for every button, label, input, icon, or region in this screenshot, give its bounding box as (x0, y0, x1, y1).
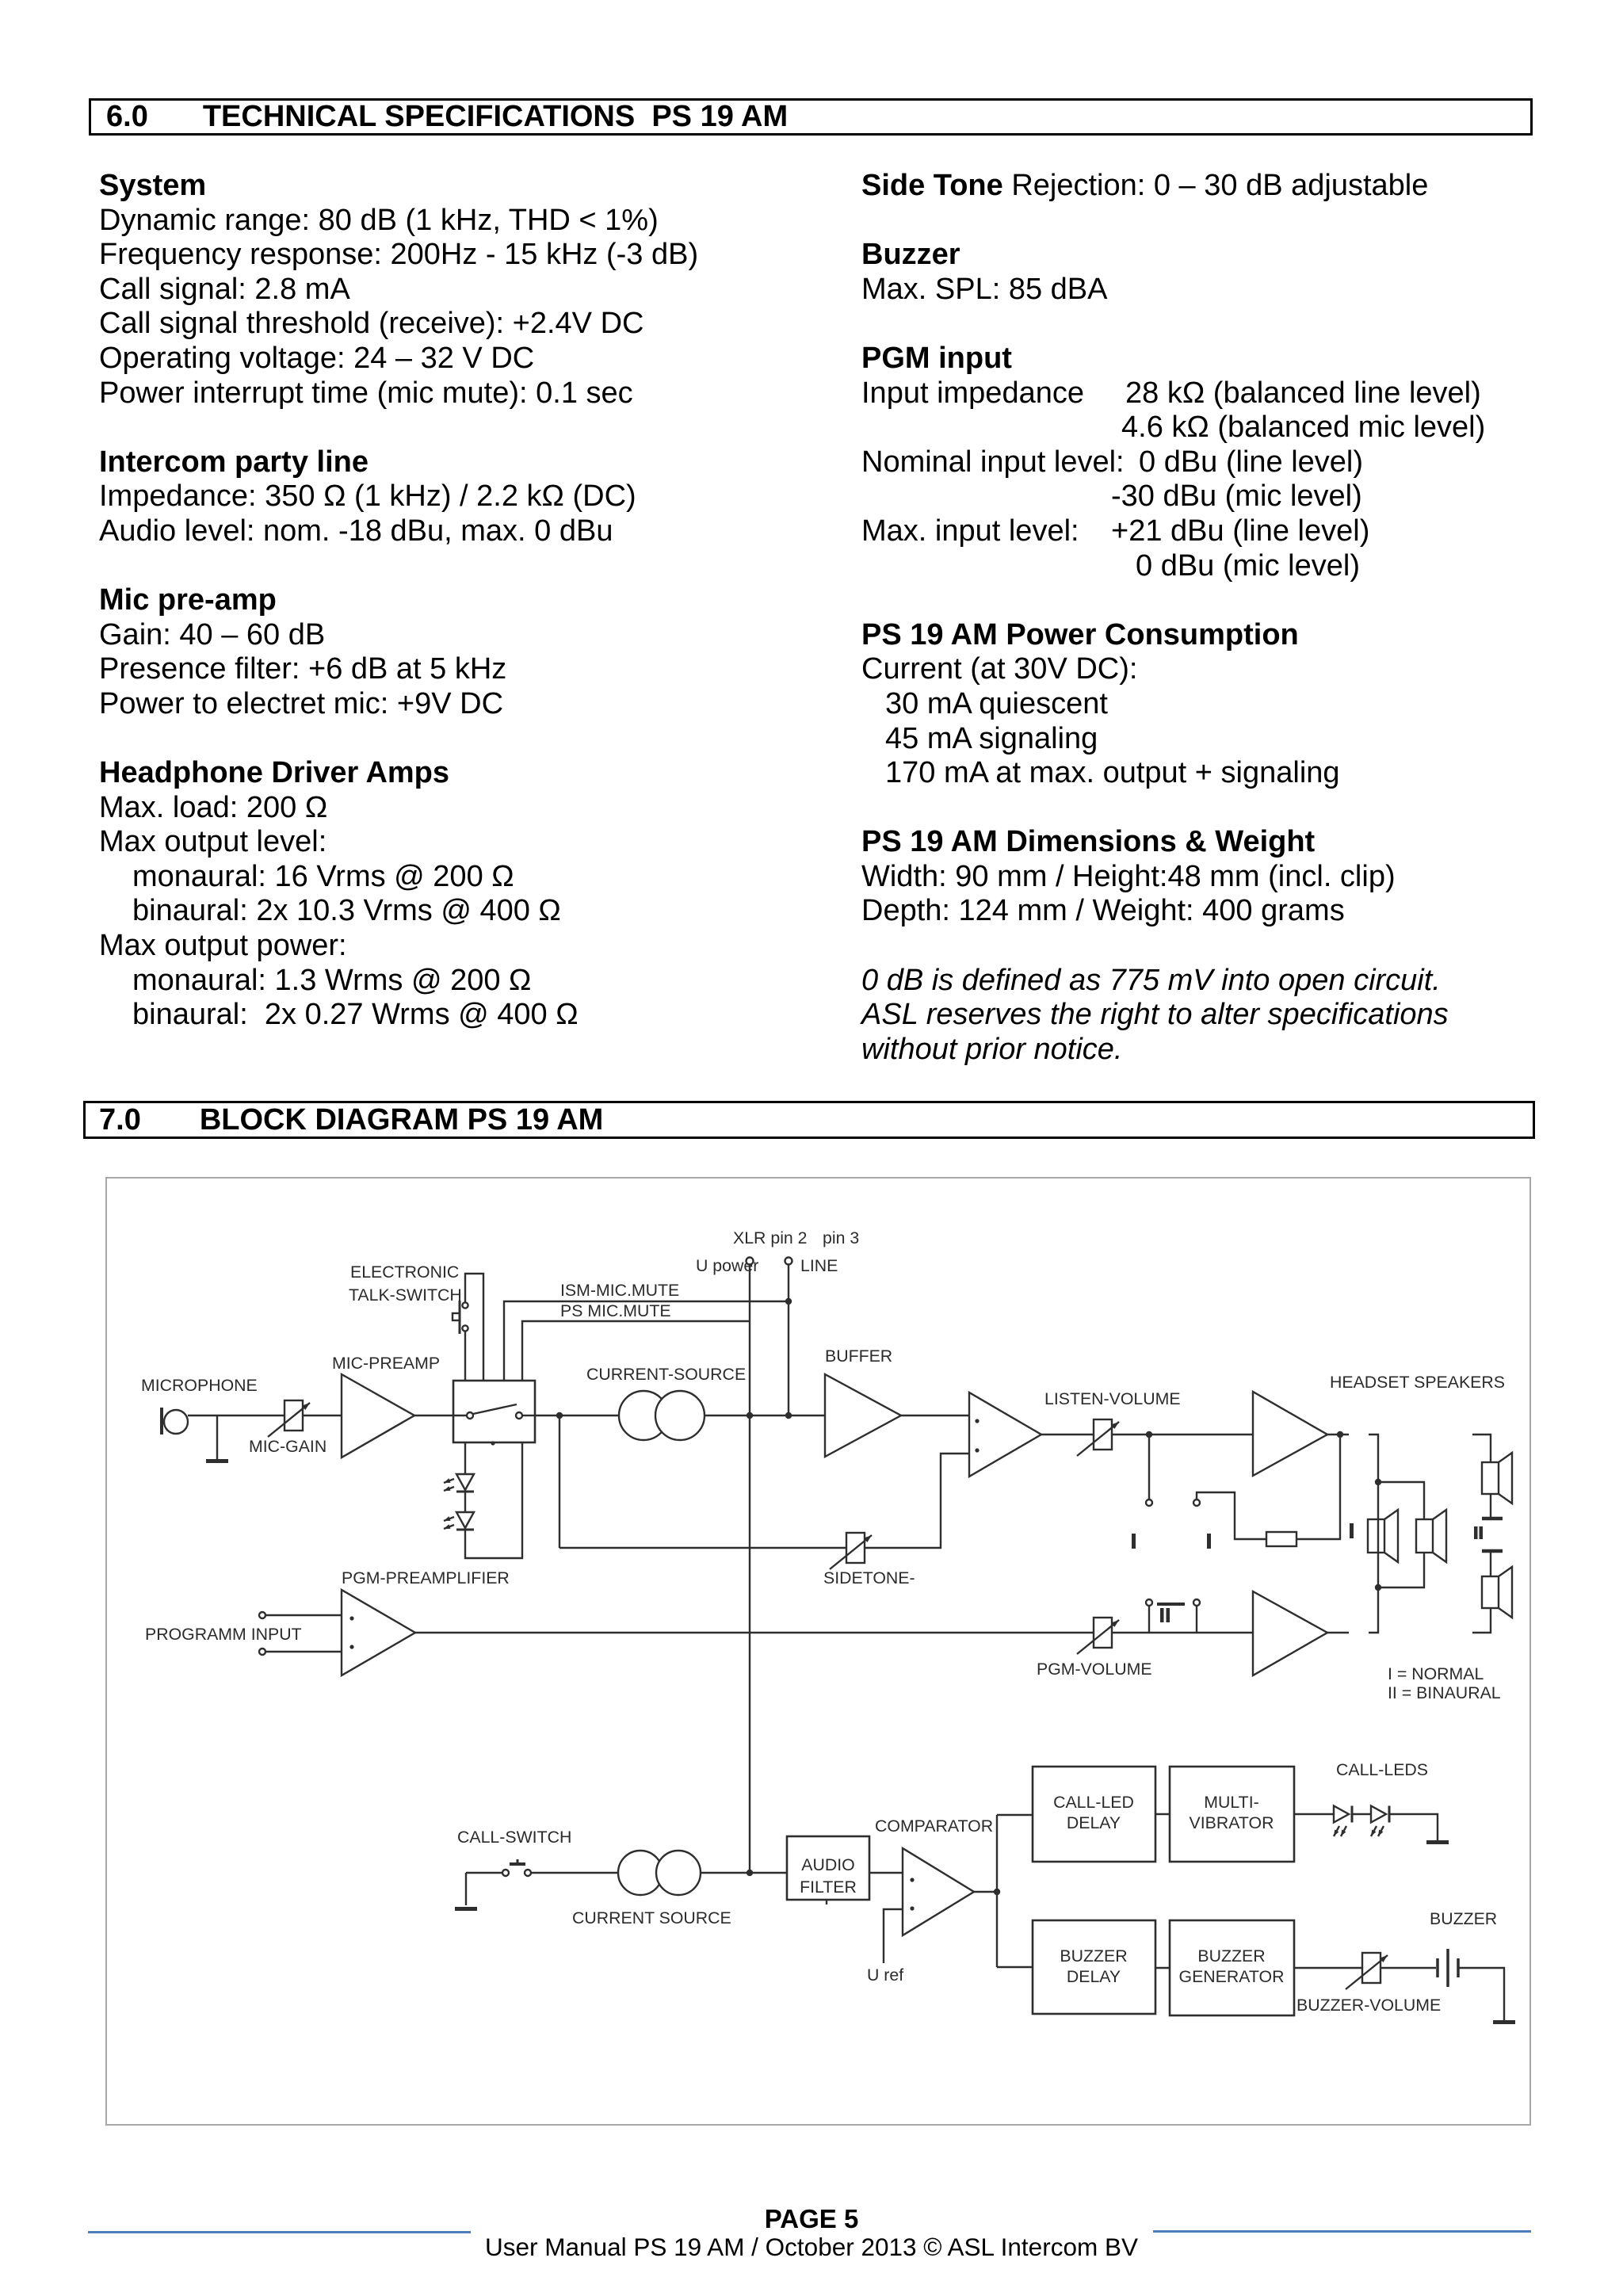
svg-text:VIBRATOR: VIBRATOR (1190, 1813, 1274, 1832)
wire talk box to LED chain (464, 1442, 466, 1474)
svg-text:HEADSET SPEAKERS: HEADSET SPEAKERS (1330, 1373, 1505, 1392)
wire sidetone to summing amp (865, 1454, 969, 1548)
amplifier MIC-PREAMP (342, 1374, 414, 1457)
label I right switch (1207, 1534, 1211, 1549)
wire top amp output (1327, 1434, 1349, 1435)
resistor R1 (1266, 1532, 1296, 1546)
junction comparator output (994, 1889, 1000, 1895)
wire resistor to switch (1197, 1492, 1266, 1539)
mute LED D1 (456, 1474, 474, 1490)
ground buzzer (1493, 2020, 1515, 2024)
talk-switch contacts (453, 1415, 467, 1416)
connector hook top right (1472, 1435, 1491, 1462)
wire LED chain (464, 1492, 466, 1512)
junction speaker node A (1375, 1479, 1381, 1485)
wire U power vertical (749, 1265, 750, 1873)
wire SP4 to hook bottom (1472, 1608, 1491, 1633)
pin PGM input + (259, 1612, 265, 1618)
svg-text:LISTEN-VOLUME: LISTEN-VOLUME (1044, 1389, 1181, 1408)
mute LED D2 (456, 1512, 474, 1528)
pin XLR pin 2 U power (747, 1258, 754, 1265)
contact plate bottom (1482, 1549, 1503, 1553)
call LED D4 (1371, 1806, 1386, 1823)
wire PS MIC.MUTE net (522, 1321, 750, 1381)
wire call switch to current source (531, 1872, 618, 1874)
wire node A to speaker SP2 top (1378, 1482, 1424, 1519)
svg-text:CURRENT-SOURCE: CURRENT-SOURCE (586, 1365, 746, 1384)
wire current-source to buffer (705, 1415, 825, 1416)
section 7.0 title bar (83, 1101, 1535, 1139)
svg-text:I = NORMAL: I = NORMAL (1388, 1664, 1484, 1683)
junction U power call line (747, 1870, 753, 1876)
contact plate top (1482, 1517, 1503, 1521)
wire generator to buzzer volume (1294, 1967, 1362, 1969)
svg-text:MULTI-: MULTI- (1204, 1793, 1258, 1812)
wire LED chain return (465, 1442, 522, 1558)
wire delay to multivibrator (1155, 1813, 1170, 1815)
svg-text:SIDETONE-: SIDETONE- (823, 1568, 915, 1587)
svg-text:MIC-PREAMP: MIC-PREAMP (332, 1354, 440, 1373)
ground mic (216, 1415, 218, 1459)
svg-text:GENERATOR: GENERATOR (1179, 1967, 1285, 1986)
summing amplifier U2 (969, 1392, 1041, 1477)
potentiometer MIC-GAIN (285, 1400, 303, 1431)
wire bottom amp output (1327, 1632, 1349, 1633)
wire pushbutton loop (465, 1274, 483, 1381)
junction speaker node B (1375, 1584, 1381, 1591)
speaker SP4 (1482, 1576, 1499, 1608)
wire PGM preamp to PGM volume (415, 1632, 1094, 1633)
junction top amp output (1337, 1431, 1343, 1438)
switch S1 mode (1148, 1435, 1150, 1499)
junction listen line switch tap (1146, 1431, 1152, 1438)
wire sidetone feed (559, 1415, 560, 1548)
svg-text:FILTER: FILTER (800, 1878, 857, 1897)
comparator U3 (903, 1848, 974, 1935)
label I speakers (1350, 1523, 1354, 1538)
wire multivibrator to LEDs (1294, 1813, 1334, 1815)
current source CS1 (619, 1391, 668, 1440)
amplifier headphone top (1253, 1392, 1327, 1476)
multivibrator box (1170, 1767, 1294, 1862)
wire between call LEDs (1352, 1813, 1371, 1815)
buzzer delay box (1033, 1920, 1155, 2014)
wire PGM volume to lower amp (1112, 1632, 1253, 1633)
ground call LEDs (1426, 1840, 1449, 1844)
svg-text:BUZZER: BUZZER (1060, 1946, 1127, 1966)
buzzer generator box (1170, 1920, 1294, 2015)
junction LINE main line (785, 1412, 792, 1419)
label II gang (1160, 1608, 1164, 1622)
svg-text:XLR pin 2: XLR pin 2 (733, 1228, 808, 1247)
pin PGM input - (259, 1648, 265, 1655)
wire audio filter to comparator (869, 1872, 903, 1874)
potentiometer LISTEN-VOLUME (1094, 1419, 1112, 1450)
wire talk-switch to current-source (535, 1415, 619, 1416)
wire buzzer delay to generator (1155, 1967, 1170, 1969)
svg-text:BUZZER-VOLUME: BUZZER-VOLUME (1296, 1996, 1441, 2015)
wire node B to speaker SP2 bottom (1378, 1553, 1424, 1587)
right spec column (861, 169, 1449, 1067)
svg-text:MICROPHONE: MICROPHONE (141, 1376, 258, 1395)
wire buzzer to ground (1458, 1968, 1504, 2020)
wire PGM inputs (265, 1614, 342, 1616)
ground call switch (455, 1907, 477, 1911)
label I left switch (1132, 1534, 1136, 1549)
svg-text:PS MIC.MUTE: PS MIC.MUTE (560, 1301, 671, 1320)
amplifier PGM-PREAMPLIFIER (342, 1590, 415, 1675)
wire buzzer volume to buzzer (1381, 1967, 1436, 1969)
svg-text:DELAY: DELAY (1067, 1967, 1121, 1986)
svg-text:PROGRAMM INPUT: PROGRAMM INPUT (145, 1625, 302, 1644)
junction sidetone tap (556, 1412, 563, 1419)
wire MIC-GAIN to MIC-PREAMP (303, 1415, 342, 1416)
left spec column (99, 169, 698, 1033)
wire call switch to ground (466, 1872, 502, 1874)
wire feedback to resistor (1296, 1435, 1340, 1539)
svg-text:DELAY: DELAY (1067, 1813, 1121, 1832)
wire U ref input (884, 1909, 903, 1963)
wire SP3 to contact (1490, 1494, 1491, 1519)
wire comparator output (974, 1891, 997, 1893)
wire ISM-MIC.MUTE net (504, 1301, 789, 1381)
svg-text:CALL-LED: CALL-LED (1053, 1793, 1134, 1812)
block diagram frame (105, 1177, 1531, 2126)
potentiometer BUZZER-VOLUME (1362, 1953, 1381, 1983)
svg-text:PGM-VOLUME: PGM-VOLUME (1037, 1660, 1152, 1679)
section 6.0 title bar (89, 98, 1533, 136)
wire sidetone to pot (559, 1547, 846, 1549)
label II speakers (1474, 1526, 1478, 1539)
pushbutton talk switch (459, 1301, 461, 1334)
wire MIC-PREAMP to talk-switch (414, 1415, 453, 1416)
svg-text:BUFFER: BUFFER (825, 1347, 892, 1366)
wire comparator output branches (996, 1815, 998, 1967)
svg-text:ELECTRONIC: ELECTRONIC (350, 1263, 459, 1282)
connector bracket left (1369, 1435, 1378, 1633)
amplifier BUFFER (825, 1374, 901, 1457)
svg-text:II = BINAURAL: II = BINAURAL (1388, 1683, 1501, 1702)
amplifier headphone bottom (1253, 1591, 1327, 1675)
call-led delay box (1033, 1767, 1155, 1862)
svg-text:TALK-SWITCH: TALK-SWITCH (349, 1286, 462, 1305)
wire LINE vertical (788, 1265, 789, 1415)
call switch pushbutton (502, 1870, 509, 1876)
audio filter box (787, 1836, 869, 1900)
speaker SP3 (1482, 1462, 1499, 1494)
svg-text:PGM-PREAMPLIFIER: PGM-PREAMPLIFIER (342, 1568, 510, 1587)
wire pushbutton to box (464, 1331, 466, 1381)
speaker SP2 (1416, 1519, 1433, 1553)
potentiometer PGM-VOLUME (1094, 1618, 1112, 1648)
junction ISM-MIC.MUTE to LINE (785, 1298, 792, 1305)
svg-text:AUDIO: AUDIO (801, 1855, 854, 1874)
svg-text:COMPARATOR: COMPARATOR (875, 1817, 993, 1836)
wire current source to audio filter (701, 1872, 787, 1874)
wire call LEDs to ground (1389, 1814, 1438, 1840)
switch S2 mode (1193, 1499, 1200, 1506)
wire listen pot to headphone amp (1112, 1434, 1253, 1435)
current source CS2 (618, 1851, 663, 1895)
junction U power main line (747, 1412, 753, 1419)
switch gang link II (1157, 1603, 1185, 1606)
svg-text:U ref: U ref (867, 1966, 903, 1985)
pin XLR pin 3 LINE (785, 1258, 792, 1265)
call LED D3 (1334, 1806, 1349, 1823)
svg-text:BUZZER: BUZZER (1430, 1909, 1497, 1928)
footer (0, 2204, 1623, 2234)
microphone MIC1 (160, 1408, 163, 1435)
svg-text:BUZZER: BUZZER (1197, 1946, 1265, 1966)
wire contact to SP4 (1490, 1551, 1491, 1576)
electronic talk-switch box (453, 1381, 535, 1442)
svg-text:CURRENT SOURCE: CURRENT SOURCE (572, 1908, 731, 1927)
svg-text:ISM-MIC.MUTE: ISM-MIC.MUTE (560, 1281, 679, 1300)
svg-text:CALL-LEDS: CALL-LEDS (1336, 1760, 1428, 1779)
wire mic to MIC-GAIN (188, 1415, 285, 1416)
wire buffer to summing amp (901, 1415, 969, 1416)
wire summing amp to listen pot (1041, 1434, 1094, 1435)
svg-text:MIC-GAIN: MIC-GAIN (249, 1437, 327, 1456)
svg-text:LINE: LINE (800, 1256, 838, 1275)
speaker SP1 (1368, 1519, 1384, 1553)
svg-text:pin 3: pin 3 (823, 1228, 859, 1247)
potentiometer SIDETONE (846, 1533, 865, 1563)
svg-text:CALL-SWITCH: CALL-SWITCH (457, 1828, 571, 1847)
buzzer BZ1 (1436, 1958, 1439, 1977)
